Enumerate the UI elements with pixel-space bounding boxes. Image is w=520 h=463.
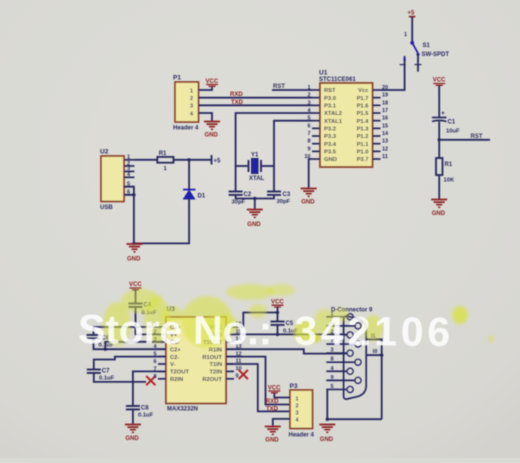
svg-text:6: 6 <box>153 359 156 365</box>
ground at P3 <box>265 427 281 435</box>
wire P1 pin4 to GND <box>199 113 213 121</box>
power +5 terminal <box>211 155 213 165</box>
svg-text:17: 17 <box>382 108 388 114</box>
svg-text:R1: R1 <box>159 151 167 157</box>
U1 pin 8 (P3.4) <box>312 143 320 145</box>
svg-text:0.1uF: 0.1uF <box>138 413 154 419</box>
svg-text:RST: RST <box>324 88 336 94</box>
svg-text:+: + <box>441 110 445 117</box>
svg-text:P3.0: P3.0 <box>324 96 336 102</box>
U1 pin 10 (GND) <box>312 158 320 160</box>
svg-text:TXD: TXD <box>266 407 279 413</box>
svg-text:U1: U1 <box>319 70 328 77</box>
svg-text:P3.4: P3.4 <box>324 142 337 148</box>
wire +5 to switch common <box>411 17 413 43</box>
svg-text:P1.1: P1.1 <box>357 142 370 148</box>
svg-text:P3.5: P3.5 <box>324 150 337 156</box>
capacitor C7 0.1uF <box>87 369 101 371</box>
wire C1 to R1 node <box>438 122 440 159</box>
wire net TXD <box>199 104 313 106</box>
J1 pin 5 <box>326 388 347 390</box>
svg-text:USB: USB <box>100 205 113 211</box>
U3 pin 6 (V-) <box>158 363 166 365</box>
U1 pin 16 (P1.4) <box>373 120 381 122</box>
U1 pin 2 (P3.0) <box>312 97 320 99</box>
svg-text:Vcc: Vcc <box>358 88 369 94</box>
svg-text:XTAL1: XTAL1 <box>324 119 343 125</box>
U3 pin 8 (R2IN) <box>158 378 166 380</box>
wire USB pin1 to R1 <box>134 159 157 161</box>
wire C5 to DB9 wire <box>277 325 279 335</box>
U3 pin 2 (V+) <box>158 333 166 335</box>
svg-text:1: 1 <box>190 89 193 95</box>
svg-text:C8: C8 <box>141 406 149 412</box>
resistor R1 (series) <box>157 157 173 163</box>
svg-text:P1.5: P1.5 <box>357 111 370 117</box>
svg-text:R1: R1 <box>445 162 453 168</box>
wire U3 T2OUT pin to C8 <box>133 371 166 406</box>
U1 pin 9 (P3.5) <box>312 150 320 152</box>
svg-text:P1.0: P1.0 <box>357 150 369 156</box>
svg-text:R1OUT: R1OUT <box>202 355 222 361</box>
svg-text:8: 8 <box>153 374 156 380</box>
U3 pin 9 (R2OUT) <box>226 378 234 380</box>
connector P3 (Header 4) <box>290 390 313 429</box>
svg-text:T2IN: T2IN <box>209 370 222 376</box>
svg-text:2: 2 <box>190 96 193 102</box>
switch S1 SW-SPDT <box>410 41 414 45</box>
diode D1 zener <box>188 160 190 190</box>
svg-text:GND: GND <box>125 436 139 442</box>
U3 pin 11 (T1IN) <box>226 363 234 365</box>
svg-text:C2: C2 <box>244 192 252 198</box>
ground below R1 <box>431 200 447 208</box>
svg-text:8: 8 <box>307 139 310 145</box>
svg-text:3: 3 <box>190 104 193 110</box>
wire U1 XTAL1 to crystal <box>274 121 312 166</box>
svg-text:P1: P1 <box>173 75 181 82</box>
wire R1 to ground <box>438 175 440 199</box>
U1 pin 18 (P1.6) <box>373 104 381 106</box>
svg-text:GND: GND <box>320 437 334 443</box>
U1 pin 13 (P1.1) <box>373 143 381 145</box>
U3 pin 7 (T2OUT) <box>158 370 166 372</box>
svg-text:8: 8 <box>331 357 334 363</box>
svg-text:C1: C1 <box>448 120 456 126</box>
svg-text:STC11CE061: STC11CE061 <box>319 77 356 83</box>
wire P1 pin1 to VCC <box>199 87 213 91</box>
svg-text:9: 9 <box>236 374 239 380</box>
wire net RST at U1 pin1 <box>272 89 312 91</box>
wire U3 C1- pin <box>105 342 166 349</box>
svg-text:T1IN: T1IN <box>209 362 222 368</box>
capacitor C2 30pF <box>235 166 237 192</box>
svg-text:VCC: VCC <box>129 282 142 288</box>
wire U1 Vcc pin to switch S1 <box>381 56 405 90</box>
no-connect X at U3 R2IN <box>146 376 155 385</box>
svg-text:C2-: C2- <box>170 355 179 361</box>
svg-text:TXD: TXD <box>231 100 244 106</box>
svg-text:P1.6: P1.6 <box>357 104 370 110</box>
J1 pin 2 <box>326 334 347 336</box>
svg-text:5: 5 <box>331 384 334 390</box>
svg-text:GND: GND <box>205 133 219 139</box>
resistor R1 10K <box>436 158 443 175</box>
svg-text:R2OUT: R2OUT <box>202 377 222 383</box>
U3 pin 13 (R1IN) <box>226 348 234 350</box>
J1 pin 9 <box>326 379 355 381</box>
svg-text:14: 14 <box>382 131 389 137</box>
J1 pin 4 <box>326 370 347 372</box>
J1 pin 8 <box>326 361 355 363</box>
svg-text:2: 2 <box>307 93 310 99</box>
U2 pin 2 <box>124 165 134 167</box>
svg-text:GND: GND <box>301 200 315 206</box>
U1 pin 6 (P3.2) <box>312 127 320 129</box>
svg-text:P3.1: P3.1 <box>324 104 337 110</box>
svg-text:GND: GND <box>324 157 337 163</box>
U1 pin 11 (P3.7) <box>373 158 381 160</box>
crystal Y1 XTAL <box>236 165 248 167</box>
wire U3 VCC pin up to VCC node <box>226 313 278 328</box>
wire USB pins 5,6 to ground rail <box>124 187 134 244</box>
svg-text:3: 3 <box>307 100 310 106</box>
svg-text:11: 11 <box>382 154 388 160</box>
svg-text:P1.7: P1.7 <box>357 96 369 102</box>
svg-text:RST: RST <box>471 134 483 140</box>
U1 pin 14 (P1.2) <box>373 135 381 137</box>
svg-text:6: 6 <box>307 123 310 129</box>
wire crystal caps to ground <box>236 195 274 199</box>
wire VCC to C4 <box>135 290 137 304</box>
svg-text:XTAL2: XTAL2 <box>324 111 342 117</box>
U1 pin 15 (P1.3) <box>373 127 381 129</box>
wire D-connector loop lower <box>366 354 381 356</box>
wire net RXD U3 R1OUT to P3 <box>226 357 290 405</box>
svg-text:7: 7 <box>307 131 310 137</box>
wire D1 to ground rail <box>134 199 189 243</box>
svg-text:+5: +5 <box>408 11 416 17</box>
U2 pin 4 <box>124 176 134 178</box>
wire U3 R1IN pin to D-connector pin3 <box>226 349 346 353</box>
U3 pin 14 (T1OUT) <box>226 341 234 343</box>
svg-text:1: 1 <box>404 32 407 38</box>
wire net RST to reset node <box>439 139 490 141</box>
ground at P1 <box>204 122 220 130</box>
svg-text:30pF: 30pF <box>277 199 291 205</box>
svg-text:1: 1 <box>296 397 299 403</box>
IC U3 MAX3232 <box>166 317 226 403</box>
capacitor C4 0.1uF <box>129 303 143 305</box>
svg-text:18: 18 <box>382 100 388 106</box>
svg-text:GND: GND <box>265 438 279 444</box>
U2 pin 3 <box>124 170 134 172</box>
wire U3 GND pin to D-connector pin2 <box>226 333 346 335</box>
wire net RXD <box>199 97 313 99</box>
svg-text:RXD: RXD <box>230 92 243 98</box>
svg-text:12: 12 <box>382 146 388 152</box>
svg-text:C3: C3 <box>283 192 291 198</box>
wire U3 C1+ pin to C6 <box>94 327 167 335</box>
svg-text:P3: P3 <box>290 383 298 390</box>
U1 pin 20 (Vcc) <box>373 89 381 91</box>
svg-text:T2OUT: T2OUT <box>170 370 189 376</box>
svg-text:GND: GND <box>432 211 446 217</box>
svg-text:RXD: RXD <box>266 399 279 405</box>
ground at U1 pin10 <box>301 189 317 197</box>
svg-text:Y1: Y1 <box>251 153 259 159</box>
U3 pin 3 (C1-) <box>158 341 166 343</box>
U3 pin 15 (GND) <box>226 333 234 335</box>
U3 pin 12 (R1OUT) <box>226 356 234 358</box>
U2 pin 6 <box>124 194 134 196</box>
no-connect X at U3 T2IN/R2OUT <box>239 370 248 379</box>
svg-text:16: 16 <box>382 116 388 122</box>
wire R1 to +5 terminal <box>174 159 212 161</box>
svg-text:P1.4: P1.4 <box>357 119 370 125</box>
U1 pin 3 (P3.1) <box>312 104 320 106</box>
capacitor C3 30pF <box>273 166 275 192</box>
wire D-connector loop upper <box>366 339 381 419</box>
J1 pin 1 <box>326 316 347 318</box>
U3 pin 10 (T2IN) <box>226 370 234 372</box>
svg-text:7: 7 <box>153 366 156 372</box>
svg-text:S1: S1 <box>423 43 431 49</box>
J1 pin 6 <box>326 325 355 327</box>
wire C8 to ground <box>132 409 134 424</box>
svg-text:Header 4: Header 4 <box>289 433 315 439</box>
ground below USB rail <box>127 244 143 252</box>
svg-text:3: 3 <box>296 411 299 417</box>
svg-text:GND: GND <box>127 257 141 263</box>
svg-text:30pF: 30pF <box>232 200 246 206</box>
svg-text:RST: RST <box>273 84 285 90</box>
U1 pin 5 (XTAL1) <box>312 120 320 122</box>
svg-text:0.1uF: 0.1uF <box>99 376 115 382</box>
svg-text:SW-SPDT: SW-SPDT <box>422 52 450 58</box>
svg-text:10K: 10K <box>444 178 455 184</box>
wire P3 pin4 to ground <box>273 419 290 426</box>
capacitor C1 10uF polarized <box>432 117 447 119</box>
IC U1 STC11CE061 MCU <box>320 83 373 167</box>
U3 pin 4 (C2+) <box>158 348 166 350</box>
ground below crystal caps <box>247 210 263 218</box>
svg-text:10uF: 10uF <box>446 129 460 135</box>
svg-text:2: 2 <box>296 404 299 410</box>
svg-text:P3.3: P3.3 <box>324 134 337 140</box>
U1 pin 1 (RST) <box>312 89 320 91</box>
wire U1 GND pin to ground <box>309 159 312 188</box>
svg-text:1: 1 <box>127 155 130 161</box>
connector U2 USB <box>101 156 124 202</box>
svg-text:9: 9 <box>307 146 310 152</box>
svg-text:+5: +5 <box>214 159 222 165</box>
wire net TXD U3 T1IN to P3 <box>226 364 290 411</box>
connector P1 (Header 4) <box>175 82 199 122</box>
svg-text:C7: C7 <box>102 369 110 375</box>
J1 pin 7 <box>326 343 355 345</box>
wire C7 bottom <box>94 373 146 382</box>
J1 pin 3 <box>326 352 347 354</box>
wire P3 pin1 to VCC <box>274 393 290 398</box>
svg-text:D1: D1 <box>198 194 206 200</box>
U1 pin 4 (XTAL2) <box>312 112 320 114</box>
U3 pin 1 (C1+) <box>158 326 166 328</box>
U2 pin 1 <box>124 159 134 161</box>
wire VCC to C1 <box>438 86 440 118</box>
svg-text:P1.2: P1.2 <box>357 134 369 140</box>
svg-text:19: 19 <box>382 93 388 99</box>
capacitor C5 0.1uF <box>271 321 285 323</box>
ground at D-connector <box>319 425 335 433</box>
U1 pin 12 (P1.0) <box>373 150 381 152</box>
capacitor C6 0.1uF <box>87 334 101 336</box>
svg-text:15: 15 <box>382 123 388 129</box>
svg-text:GND: GND <box>247 222 261 228</box>
svg-text:P3.7: P3.7 <box>357 157 369 163</box>
capacitor C8 0.1uF <box>126 405 140 407</box>
U1 pin 7 (P3.3) <box>312 135 320 137</box>
ground below C8 <box>125 425 141 433</box>
svg-text:R2IN: R2IN <box>170 377 183 383</box>
U1 pin 17 (P1.5) <box>373 112 381 114</box>
svg-text:P1.3: P1.3 <box>357 127 370 133</box>
wire C4 to U3 V+ pin <box>136 307 167 335</box>
svg-text:9: 9 <box>331 375 334 381</box>
U3 pin 5 (C2-) <box>158 356 166 358</box>
wire D-connector ground rail <box>327 418 381 420</box>
svg-text:U2: U2 <box>100 149 109 156</box>
svg-text:P3.2: P3.2 <box>324 127 336 133</box>
svg-text:VCC: VCC <box>433 78 446 84</box>
U2 pin 5 <box>124 186 134 188</box>
wire C6 to U3 C2+ pin <box>94 338 167 349</box>
U1 pin 19 (P1.7) <box>373 97 381 99</box>
wire U3 C2- pin to C7 <box>94 357 166 370</box>
svg-text:13: 13 <box>382 139 388 145</box>
svg-text:Store No.: 342106: Store No.: 342106 <box>78 306 454 355</box>
svg-text:MAX3232N: MAX3232N <box>167 407 198 413</box>
svg-text:V-: V- <box>170 362 176 368</box>
svg-text:XTAL: XTAL <box>249 176 265 182</box>
svg-text:Header 4: Header 4 <box>173 126 199 132</box>
U3 pin 16 (VCC) <box>226 326 234 328</box>
wire U1 XTAL2 to crystal <box>236 113 312 166</box>
